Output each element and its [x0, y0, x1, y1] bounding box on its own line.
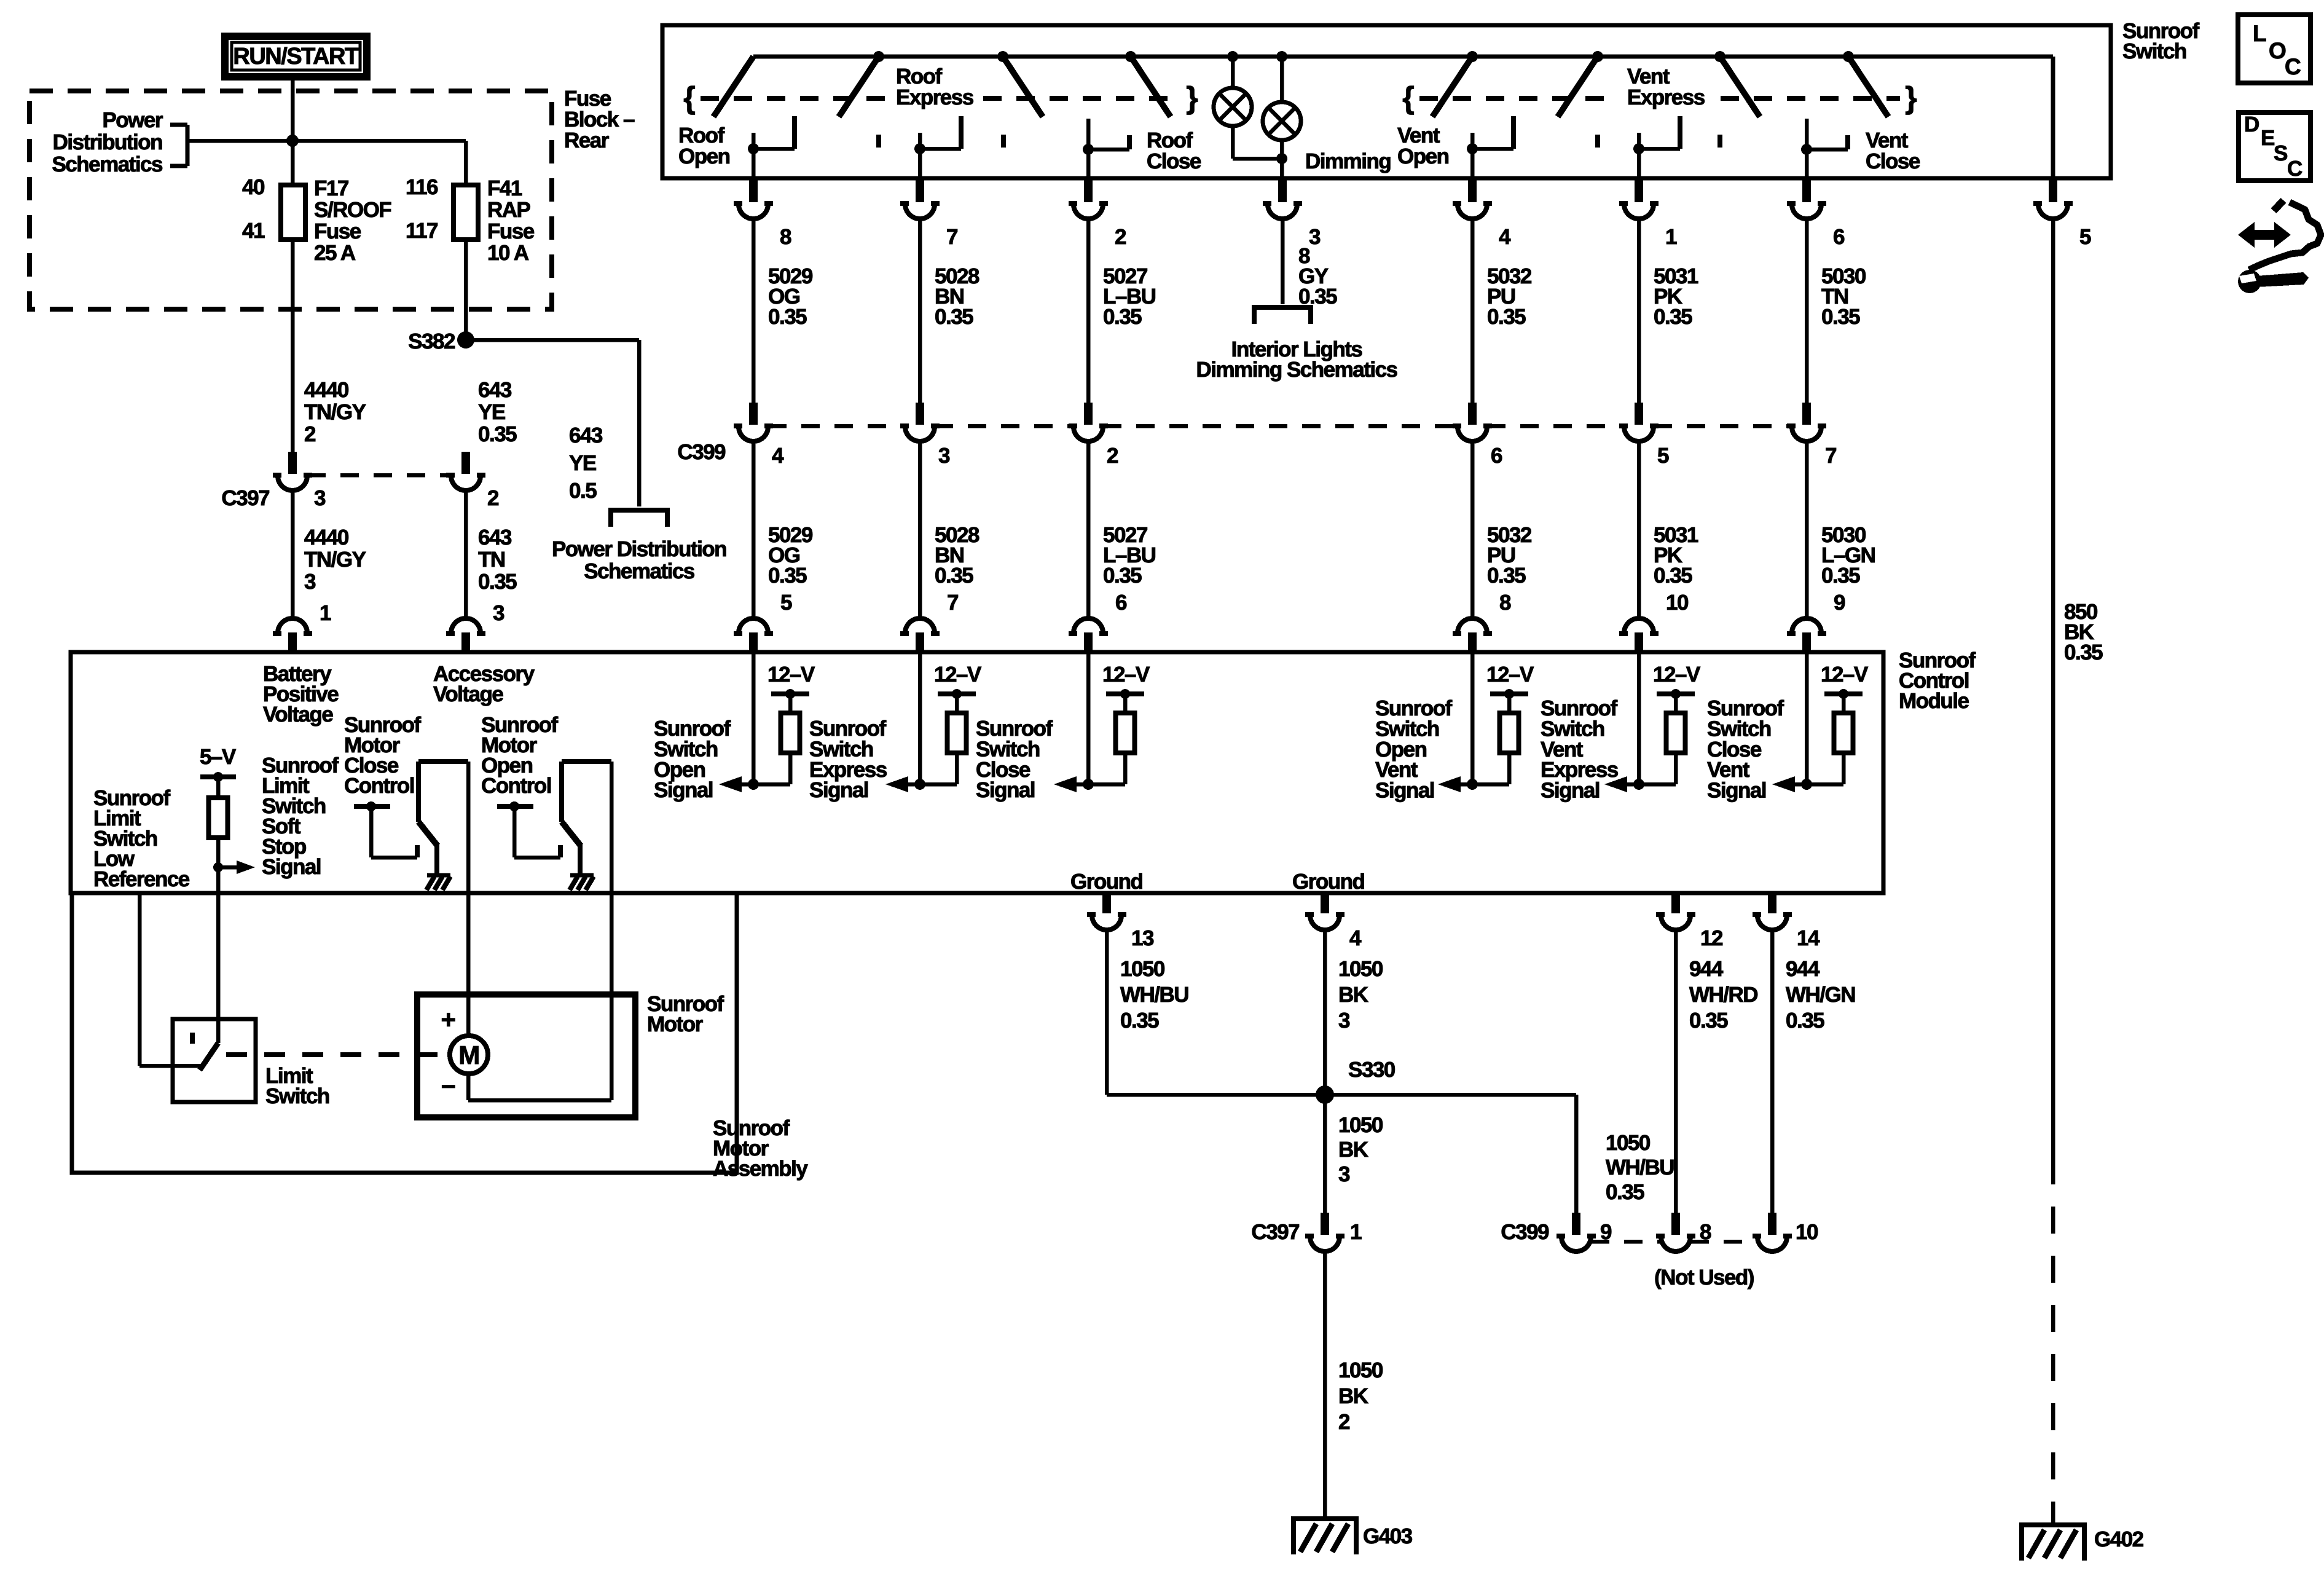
svg-text:C399: C399 [677, 440, 726, 464]
svg-text:Reference: Reference [93, 867, 190, 891]
svg-text:Close: Close [1866, 149, 1920, 173]
module pin 5 [739, 618, 768, 633]
svg-text:4: 4 [1499, 225, 1511, 249]
svg-text:E: E [2261, 126, 2274, 150]
svg-text:40: 40 [242, 175, 265, 199]
connector C397 pin 1 (lower) [1321, 1213, 1329, 1235]
module pin 4 [1321, 891, 1329, 913]
svg-text:G403: G403 [1363, 1524, 1413, 1548]
switch Roof Express contact [918, 133, 922, 149]
power feed box RUN/START [225, 36, 367, 77]
svg-text:1050: 1050 [1338, 1113, 1383, 1137]
svg-text:944: 944 [1689, 957, 1724, 981]
mechanical link limit switch to motor (dashed) [226, 1052, 449, 1057]
svg-text:1050: 1050 [1338, 1358, 1383, 1382]
wire open control to motor - [610, 762, 614, 1100]
svg-text:12: 12 [1700, 926, 1723, 950]
svg-text:7: 7 [946, 225, 957, 249]
wire 5031 PK to module pin 10 [1637, 441, 1641, 619]
module channel Sunroof Switch Close Vent Signal: input wire [1805, 652, 1809, 784]
wire 944 WH/GN 0.35 (pin 14) [1770, 930, 1775, 1216]
svg-text:}: } [1186, 81, 1198, 115]
wire close control to motor + [466, 762, 471, 1036]
svg-text:12–V: 12–V [1653, 663, 1701, 687]
svg-text:1: 1 [1665, 225, 1677, 249]
svg-text:Ground: Ground [1292, 870, 1364, 894]
connector C399 pin 10 (lower) [1768, 1213, 1776, 1235]
svg-text:6: 6 [1115, 591, 1127, 615]
fuse F17 S/ROOF 25 A [281, 185, 305, 240]
svg-text:5–V: 5–V [200, 745, 237, 769]
destination bracket power distribution schematics [608, 508, 670, 513]
svg-text:Control: Control [344, 774, 414, 798]
bracket power distribution feed [186, 125, 190, 166]
svg-text:Voltage: Voltage [263, 703, 333, 726]
sunroof switch connector pin 7 [916, 180, 924, 202]
svg-text:8: 8 [780, 225, 791, 249]
sunroof switch connector pin 5 [2049, 180, 2057, 202]
svg-text:Schematics: Schematics [52, 152, 163, 176]
wire 8 GY to interior lights dimming [1281, 219, 1285, 304]
svg-text:3: 3 [304, 570, 316, 594]
sunroof switch connector pin 8 [749, 180, 758, 202]
svg-text:9: 9 [1834, 591, 1845, 615]
wire 1050 BK 3 (pin 4) [1323, 930, 1327, 1216]
svg-text:3: 3 [493, 601, 504, 625]
svg-text:944: 944 [1786, 957, 1820, 981]
spare contact tick 1 [876, 135, 881, 148]
arrow sunroof limit switch soft stop signal [218, 865, 237, 870]
svg-text:WH/BU: WH/BU [1606, 1156, 1674, 1179]
switch Vent Close contact [1805, 119, 1809, 149]
switch Roof Close blade [997, 51, 1008, 62]
svg-text:10 A: 10 A [487, 241, 529, 265]
svg-text:C: C [2287, 157, 2302, 181]
svg-text:Motor: Motor [647, 1012, 704, 1036]
connector C399 pin 9 (lower) [1572, 1213, 1580, 1235]
dashed link C399 row [768, 424, 905, 428]
svg-text:Signal: Signal [1707, 779, 1766, 803]
switch Vent Open blade [1467, 51, 1478, 62]
svg-text:O: O [2269, 38, 2286, 63]
svg-text:Power Distribution: Power Distribution [552, 537, 726, 561]
svg-text:BK: BK [1338, 1138, 1368, 1162]
close control input [354, 804, 390, 809]
signal arrow Sunroof Switch Open Vent Signal [1460, 782, 1509, 787]
svg-text:BK: BK [1338, 1384, 1368, 1408]
svg-text:116: 116 [406, 175, 438, 199]
driver switch sunroof motor close control [418, 759, 468, 764]
fuse block dashed box (Fuse Block - Rear) [29, 91, 552, 309]
module pin 10 [1624, 618, 1654, 633]
svg-text:C397: C397 [221, 486, 269, 510]
signal arrow Sunroof Switch Close Signal [1076, 782, 1125, 787]
svg-text:G402: G402 [2094, 1527, 2144, 1551]
wire 5028 BN to C399 [918, 219, 922, 406]
svg-text:12–V: 12–V [1102, 663, 1150, 687]
sunroof switch connector pin 1 [1635, 180, 1643, 202]
wire 5032 PU to C399 [1470, 219, 1475, 406]
spare contact tick 4 [1717, 135, 1722, 148]
svg-text:Switch: Switch [2122, 39, 2186, 63]
svg-text:S382: S382 [408, 329, 455, 353]
switch Vent Express contact [1637, 133, 1641, 149]
module channel Sunroof Switch Vent Express Signal: input wire [1637, 652, 1641, 784]
svg-text:5: 5 [780, 591, 792, 615]
wire 5029 OG to C399 [752, 219, 756, 406]
wire 1050 BK 2 to G403 [1323, 1251, 1327, 1516]
svg-text:5: 5 [2079, 225, 2091, 249]
wire 5027 L–BU to module pin 6 [1086, 441, 1091, 619]
module pin 14 [1768, 891, 1776, 913]
svg-text:Power: Power [102, 108, 163, 132]
splice S330 [1107, 1093, 1325, 1097]
svg-text:S330: S330 [1348, 1058, 1396, 1082]
svg-text:0.35: 0.35 [1103, 564, 1142, 588]
sunroof control module box [71, 652, 1883, 893]
LOC reference box [2238, 15, 2310, 83]
svg-text:TN/GY: TN/GY [304, 400, 366, 424]
wire junction to F41 fuse [292, 139, 466, 143]
wire S382 to power distribution schematics (643 YE 0.5) [466, 338, 639, 342]
svg-text:1050: 1050 [1338, 957, 1383, 981]
resistor 5-V pullup [209, 798, 228, 838]
signal arrow Sunroof Switch Close Vent Signal [1794, 782, 1843, 787]
svg-text:L: L [2253, 21, 2266, 46]
switch Roof Close blade 2 [1125, 51, 1136, 62]
sunroof switch connector pin 6 [1802, 180, 1811, 202]
svg-text:10: 10 [1666, 591, 1689, 615]
svg-text:0.35: 0.35 [1786, 1009, 1824, 1033]
svg-text:Rear: Rear [564, 128, 610, 152]
svg-text:C: C [2285, 54, 2301, 79]
sunroof switch box [662, 25, 2111, 178]
svg-text:0.35: 0.35 [768, 564, 807, 588]
junction dot soft stop signal [213, 862, 223, 872]
svg-text:2: 2 [1338, 1410, 1350, 1434]
wire F17 to connector C397 pin 3 [291, 240, 295, 455]
svg-text:4440: 4440 [304, 526, 349, 549]
switch Roof Express blade [873, 51, 884, 62]
svg-text:0.35: 0.35 [1487, 564, 1526, 588]
svg-text:Schematics: Schematics [584, 559, 695, 583]
svg-text:Open: Open [1397, 144, 1449, 168]
svg-text:2: 2 [304, 422, 316, 446]
wire 5032 PU to module pin 8 [1470, 441, 1475, 619]
limit switch contact [190, 1033, 195, 1044]
svg-text:Close: Close [1147, 149, 1201, 173]
svg-text:Switch: Switch [265, 1084, 329, 1108]
svg-text:Distribution: Distribution [53, 130, 162, 154]
svg-text:Ground: Ground [1070, 870, 1142, 894]
switch Roof Open contact [752, 133, 756, 149]
switch Vent Close blade [1714, 51, 1725, 62]
svg-text:7: 7 [947, 591, 958, 615]
svg-text:Express: Express [1627, 85, 1705, 109]
wire S330 to C399 pin 9 [1325, 1093, 1576, 1097]
svg-text:0.35: 0.35 [2064, 640, 2103, 664]
sunroof switch connector pin 2 [1084, 180, 1093, 202]
svg-text:1: 1 [1350, 1220, 1362, 1244]
dashed link lower C399 [1591, 1240, 1661, 1244]
signal arrow Sunroof Switch Open Signal [741, 782, 790, 787]
switch Vent Close blade 2 [1843, 51, 1854, 62]
svg-text:{: { [1402, 81, 1414, 115]
open control input [497, 804, 533, 809]
connector C397 pin 2 (upper) [461, 452, 470, 474]
wire 5027 L–BU to C399 [1086, 219, 1091, 406]
svg-text:TN: TN [478, 548, 505, 572]
wire 850 BK 0.35 to G402 [2051, 219, 2055, 1157]
module pin 8 [1458, 618, 1487, 633]
svg-text:0.35: 0.35 [1606, 1180, 1644, 1204]
svg-text:0.35: 0.35 [1487, 305, 1526, 329]
svg-text:5: 5 [1657, 444, 1669, 468]
svg-text:643: 643 [569, 423, 603, 447]
svg-text:0.5: 0.5 [569, 479, 597, 503]
svg-text:Open: Open [678, 144, 730, 168]
svg-text:Dimming Schematics: Dimming Schematics [1196, 358, 1398, 382]
svg-text:4: 4 [1349, 926, 1362, 950]
svg-text:643: 643 [478, 378, 512, 402]
svg-text:Voltage: Voltage [433, 682, 503, 706]
switch common bus [753, 55, 2053, 59]
motor M [450, 1036, 488, 1074]
svg-text:RAP: RAP [487, 198, 531, 222]
svg-text:7: 7 [1825, 444, 1836, 468]
switch Vent Express blade [1592, 51, 1603, 62]
svg-text:2: 2 [487, 486, 499, 510]
svg-text:0.35: 0.35 [935, 305, 973, 329]
svg-text:0.35: 0.35 [1689, 1009, 1728, 1033]
svg-text:0.35: 0.35 [935, 564, 973, 588]
module pin 1 battery positive [278, 618, 307, 633]
svg-text:D: D [2244, 112, 2259, 136]
module pin 6 [1074, 618, 1103, 633]
svg-text:1050: 1050 [1120, 957, 1165, 981]
wire 1050 WH/BU 0.35 (pin 13) [1105, 930, 1109, 1095]
signal arrow Sunroof Switch Vent Express Signal [1627, 782, 1676, 787]
module channel Sunroof Switch Open Signal: input wire [752, 652, 756, 784]
svg-text:Signal: Signal [1375, 779, 1434, 803]
svg-text:0.35: 0.35 [1103, 305, 1142, 329]
ground G402 [2019, 1522, 2087, 1527]
svg-text:(Not Used): (Not Used) [1654, 1266, 1754, 1290]
svg-text:2: 2 [1115, 225, 1126, 249]
svg-text:S/ROOF: S/ROOF [314, 198, 391, 222]
svg-text:10: 10 [1796, 1220, 1818, 1244]
sunroof switch connector pin 3 [1278, 180, 1287, 202]
ground G403 [1291, 1516, 1359, 1521]
svg-text:Dimming: Dimming [1305, 149, 1391, 173]
svg-text:117: 117 [406, 219, 438, 243]
wire 5031 PK to C399 [1637, 219, 1641, 406]
sunroof motor box [417, 994, 635, 1117]
driver switch sunroof motor open control [562, 759, 611, 764]
svg-text:S: S [2274, 141, 2287, 165]
svg-text:F17: F17 [314, 176, 348, 200]
svg-text:4: 4 [772, 444, 784, 468]
svg-text:41: 41 [242, 219, 265, 243]
limit switch blade [200, 1043, 218, 1070]
svg-text:3: 3 [314, 486, 326, 510]
svg-text:+: + [441, 1005, 455, 1034]
svg-text:C399: C399 [1501, 1220, 1549, 1244]
wire 5029 OG to module pin 5 [752, 441, 756, 619]
wire label 643 TN 0.35 [464, 490, 468, 619]
wire power distribution to junction [187, 139, 292, 143]
svg-text:12–V: 12–V [1821, 663, 1869, 687]
svg-text:0.35: 0.35 [1821, 305, 1860, 329]
wire 5030 TN to C399 [1805, 219, 1809, 406]
svg-text:Fuse: Fuse [487, 219, 535, 243]
connector C399 pin 8 (lower) [1671, 1213, 1680, 1235]
connector C399 pin 3 [916, 403, 924, 425]
svg-text:Signal: Signal [809, 778, 868, 802]
svg-text:0.35: 0.35 [768, 305, 807, 329]
svg-text:2: 2 [1107, 444, 1118, 468]
svg-text:1050: 1050 [1606, 1131, 1651, 1155]
module channel Sunroof Switch Open Vent Signal: input wire [1470, 652, 1475, 784]
svg-text:Signal: Signal [1541, 779, 1600, 803]
svg-text:0.35: 0.35 [478, 570, 517, 594]
svg-text:0.35: 0.35 [1654, 305, 1692, 329]
wire 944 WH/RD 0.35 (pin 12) [1674, 930, 1678, 1216]
svg-text:0.35: 0.35 [1821, 564, 1860, 588]
svg-text:Module: Module [1899, 689, 1969, 713]
svg-text:WH/RD: WH/RD [1689, 983, 1757, 1007]
fuse F41 RAP 10 A [453, 185, 478, 240]
svg-text:WH/BU: WH/BU [1120, 983, 1188, 1007]
svg-text:Signal: Signal [262, 855, 321, 879]
svg-text:12–V: 12–V [1486, 663, 1534, 687]
svg-text:{: { [683, 81, 695, 115]
spare contact tick 3 [1595, 135, 1600, 148]
svg-text:3: 3 [1338, 1162, 1350, 1186]
dimming lamp 1 [1227, 51, 1238, 62]
svg-text:8: 8 [1499, 591, 1511, 615]
svg-text:Signal: Signal [654, 778, 713, 802]
connector C399 pin 6 [1468, 403, 1477, 425]
splice S382 [457, 331, 474, 348]
svg-text:6: 6 [1833, 225, 1845, 249]
sunroof switch connector pin 4 [1468, 180, 1477, 202]
dashed link C397 [307, 473, 451, 478]
limit switch box [173, 1019, 256, 1102]
svg-text:13: 13 [1131, 926, 1154, 950]
DESC reference box [2239, 112, 2310, 181]
svg-text:TN/GY: TN/GY [304, 548, 366, 572]
svg-text:Assembly: Assembly [713, 1157, 808, 1181]
module pin 13 [1102, 891, 1111, 913]
spare contact tick 2 [1001, 135, 1006, 148]
switch Roof Close contact [1086, 119, 1091, 149]
junction dot feed [286, 135, 299, 147]
destination bracket interior lights [1252, 305, 1313, 310]
svg-text:1: 1 [320, 601, 331, 625]
wire F41 to splice S382 [464, 240, 468, 340]
svg-text:BK: BK [1338, 983, 1368, 1007]
svg-text:C397: C397 [1251, 1220, 1299, 1244]
svg-text:–: – [441, 1070, 455, 1099]
ground close control driver [427, 873, 450, 878]
svg-text:0.35: 0.35 [478, 422, 517, 446]
svg-text:Fuse: Fuse [314, 219, 361, 243]
connector C399 pin 4 [749, 403, 758, 425]
switch Roof Open blade [713, 57, 753, 117]
svg-text:6: 6 [1491, 444, 1502, 468]
wire 5030 L–GN to module pin 9 [1805, 441, 1809, 619]
svg-text:3: 3 [938, 444, 950, 468]
connector C399 pin 5 [1635, 403, 1643, 425]
sunroof motor assembly box [72, 893, 737, 1173]
module channel Sunroof Switch Express Signal: input wire [918, 652, 922, 784]
svg-text:YE: YE [569, 451, 596, 475]
connector C399 pin 7 [1802, 403, 1811, 425]
svg-text:F41: F41 [487, 176, 522, 200]
module pin 7 [905, 618, 935, 633]
connector C399 pin 2 [1084, 403, 1093, 425]
ground open control driver [570, 873, 594, 878]
wire 5-V to limit switch [216, 838, 221, 1043]
svg-text:3: 3 [1309, 225, 1321, 249]
svg-text:YE: YE [478, 400, 505, 424]
wire label 4440 TN/GY 3 [291, 490, 295, 619]
svg-text:3: 3 [1338, 1009, 1350, 1033]
svg-text:0.35: 0.35 [1120, 1009, 1159, 1033]
svg-text:25 A: 25 A [314, 241, 356, 265]
svg-text:Signal: Signal [976, 778, 1035, 802]
svg-text:WH/GN: WH/GN [1786, 983, 1855, 1007]
module pin 3 accessory voltage [451, 618, 481, 633]
svg-text:}: } [1905, 81, 1917, 115]
module channel Sunroof Switch Close Signal: input wire [1086, 652, 1091, 784]
wire 5028 BN to module pin 7 [918, 441, 922, 619]
svg-text:4440: 4440 [304, 378, 349, 402]
svg-text:12–V: 12–V [934, 663, 982, 687]
module pin 12 [1671, 891, 1680, 913]
svg-text:RUN/START: RUN/START [233, 44, 359, 69]
svg-text:Control: Control [481, 774, 551, 798]
svg-text:M: M [458, 1041, 479, 1069]
connector C397 pin 3 (upper) [288, 452, 297, 474]
wire RUN/START to F17 fuse [291, 81, 295, 185]
svg-text:643: 643 [478, 526, 512, 549]
svg-text:14: 14 [1797, 926, 1820, 950]
svg-text:0.35: 0.35 [1654, 564, 1692, 588]
service icon double arrow with wrench [2238, 222, 2291, 248]
svg-text:12–V: 12–V [767, 663, 815, 687]
svg-text:Express: Express [896, 85, 974, 109]
signal arrow Sunroof Switch Express Signal [908, 782, 957, 787]
switch Vent Open contact [1470, 133, 1475, 149]
dimming lamp 2 [1276, 51, 1287, 62]
module pin 9 [1792, 618, 1821, 633]
wire low reference [138, 893, 142, 1066]
